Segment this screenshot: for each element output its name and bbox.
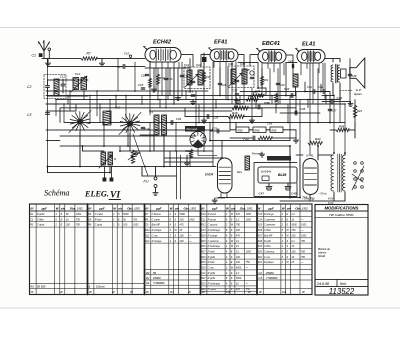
svg-text:5000: 5000 xyxy=(236,267,242,270)
svg-text:25000: 25000 xyxy=(152,276,161,280)
svg-text:W: W xyxy=(282,206,285,210)
svg-text:C34: C34 xyxy=(176,117,182,121)
resistor R19 xyxy=(274,93,277,102)
svg-text:R16: R16 xyxy=(201,245,206,248)
mains plug pins xyxy=(103,178,107,182)
svg-text:750: 750 xyxy=(301,250,306,253)
svg-text:50: 50 xyxy=(153,271,156,275)
svg-text:R.charge: R.charge xyxy=(152,229,162,232)
wire power section xyxy=(289,146,291,198)
capacitor C38 xyxy=(250,71,254,75)
tuning gang section A xyxy=(70,112,90,132)
svg-text:R17: R17 xyxy=(201,250,206,253)
svg-text:1952: 1952 xyxy=(133,224,139,227)
potentiometer P xyxy=(131,150,135,163)
svg-text:25000: 25000 xyxy=(265,271,274,275)
IF transformer T1 xyxy=(184,67,210,89)
svg-text:C.filtre: C.filtre xyxy=(264,245,272,248)
svg-text:C23: C23 xyxy=(188,90,194,94)
svg-text:—: — xyxy=(188,234,192,237)
svg-text:o/e: o/e xyxy=(231,206,236,210)
wire xyxy=(48,79,89,81)
svg-text:C45: C45 xyxy=(288,60,293,64)
svg-text:C.decoup: C.decoup xyxy=(264,250,275,253)
svg-text:C.ajust: C.ajust xyxy=(95,224,103,227)
svg-text:R10: R10 xyxy=(145,229,150,232)
svg-text:C.cadre: C.cadre xyxy=(95,213,104,216)
svg-text:C.osc: C.osc xyxy=(208,267,215,270)
svg-text:R.fuite: R.fuite xyxy=(208,261,216,264)
svg-text:7.500000: 7.500000 xyxy=(266,276,278,280)
svg-text:Schéma: Schéma xyxy=(44,189,69,198)
svg-text:5000: 5000 xyxy=(291,224,297,227)
modifications panel xyxy=(315,205,368,296)
permeability tuner box xyxy=(185,126,205,132)
svg-text:C45: C45 xyxy=(267,122,273,126)
resistor R35 xyxy=(251,94,264,98)
svg-text:S20: S20 xyxy=(201,267,206,270)
svg-text:470: 470 xyxy=(236,288,241,291)
svg-text:C.osc: C.osc xyxy=(264,256,271,259)
svg-text:C46: C46 xyxy=(300,107,306,111)
svg-text:C49: C49 xyxy=(264,101,270,105)
svg-text:C30: C30 xyxy=(228,62,234,66)
resistor R40 box xyxy=(253,127,266,133)
svg-text:24.6.58: 24.6.58 xyxy=(316,282,329,286)
resistor R39 xyxy=(258,136,272,140)
svg-text:W: W xyxy=(259,290,262,294)
svg-text:D+0/S4s: D+0/S4s xyxy=(261,170,272,174)
svg-text:R35: R35 xyxy=(253,90,258,94)
svg-text:S20: S20 xyxy=(258,250,263,253)
svg-text:1952: 1952 xyxy=(77,206,83,210)
svg-text:R.grille: R.grille xyxy=(208,272,216,275)
svg-text:blindé: blindé xyxy=(318,254,326,258)
antenna xyxy=(39,41,50,59)
svg-text:5000: 5000 xyxy=(180,213,186,216)
svg-text:750: 750 xyxy=(301,240,306,243)
wire plate coupling EBC41-EL41 xyxy=(286,55,296,96)
svg-text:5000: 5000 xyxy=(123,213,129,216)
svg-text:R16: R16 xyxy=(258,229,263,232)
svg-text:R.fuite: R.fuite xyxy=(208,250,216,253)
svg-text:R.fuite: R.fuite xyxy=(95,218,103,221)
svg-text:R12: R12 xyxy=(185,149,190,153)
svg-text:750: 750 xyxy=(76,224,81,227)
svg-text:C38: C38 xyxy=(245,68,250,72)
svg-text:2,2: 2,2 xyxy=(290,213,295,216)
resistor R54 xyxy=(336,128,349,132)
svg-text:C14: C14 xyxy=(258,218,263,221)
wire plate coupling ECH42-T1 xyxy=(181,55,210,68)
svg-text:S: S xyxy=(89,285,91,289)
ground xyxy=(212,198,217,203)
svg-text:W: W xyxy=(302,290,305,294)
svg-text:HP. Calibre 785%: HP. Calibre 785% xyxy=(329,213,353,217)
table group dividers xyxy=(87,204,89,295)
tuning gang section B xyxy=(120,114,140,134)
svg-text:S11: S11 xyxy=(145,234,150,237)
wire bottom rails right xyxy=(218,197,300,199)
svg-text:EM34: EM34 xyxy=(205,173,214,177)
svg-text:W: W xyxy=(202,290,205,294)
svg-text:C.cadre: C.cadre xyxy=(208,288,217,291)
capacitor C48 electrolytic xyxy=(285,184,291,191)
svg-text:4,5V: 4,5V xyxy=(328,197,334,201)
svg-text:1952: 1952 xyxy=(134,206,140,210)
wire PU run xyxy=(142,175,177,177)
svg-text:R40: R40 xyxy=(255,128,260,132)
svg-text:470: 470 xyxy=(236,213,241,216)
capacitor C33 xyxy=(217,129,219,133)
svg-text:W: W xyxy=(170,206,173,210)
svg-text:o/e: o/e xyxy=(287,206,292,210)
svg-text:C16: C16 xyxy=(141,74,146,78)
svg-text:7.500000: 7.500000 xyxy=(153,281,165,285)
svg-text:100: 100 xyxy=(236,229,241,232)
wire filter loop xyxy=(254,163,297,197)
junction dots extra xyxy=(189,90,191,92)
coil L2 with core arrow xyxy=(73,78,79,90)
svg-text:—: — xyxy=(188,240,192,243)
svg-text:W: W xyxy=(146,290,149,294)
svg-text:R17: R17 xyxy=(258,234,263,237)
capacitor C26 xyxy=(218,83,222,84)
svg-text:100: 100 xyxy=(180,234,185,237)
svg-text:750: 750 xyxy=(236,224,241,227)
svg-text:C18: C18 xyxy=(138,83,144,87)
svg-text:1952: 1952 xyxy=(190,206,196,210)
resistor R14 xyxy=(202,72,205,82)
capacitor C1 xyxy=(39,53,43,57)
svg-text:C13: C13 xyxy=(258,213,263,216)
wire plate coupling EF41-T2 xyxy=(238,55,258,67)
resistor R11 xyxy=(148,78,151,87)
oscillator coil L3 xyxy=(154,115,159,135)
svg-text:113522: 113522 xyxy=(329,287,355,296)
svg-text:Obs.: Obs. xyxy=(127,206,134,210)
wire bus rail 5 xyxy=(60,107,296,109)
wire bus rail 6b xyxy=(46,129,213,131)
svg-text:W: W xyxy=(112,290,115,294)
wire speaker leads xyxy=(332,59,334,63)
svg-text:Obs.: Obs. xyxy=(70,206,77,210)
svg-text:C11: C11 xyxy=(60,75,65,79)
svg-text:R2: R2 xyxy=(146,271,150,275)
table row lines xyxy=(30,216,313,291)
wire top rail xyxy=(42,58,81,60)
dial lamp wire pair xyxy=(176,151,178,199)
svg-text:EF41: EF41 xyxy=(214,40,227,46)
oscillator coil L4 xyxy=(162,115,167,135)
svg-text:R.bobinage: R.bobinage xyxy=(208,229,221,232)
svg-text:200: 200 xyxy=(235,261,241,264)
svg-text:μμF: μμF xyxy=(41,206,47,210)
svg-text:C22: C22 xyxy=(196,63,202,67)
svg-text:R.plaque: R.plaque xyxy=(264,261,274,264)
svg-text:200: 200 xyxy=(179,240,185,243)
capacitor C37 xyxy=(328,109,332,110)
svg-text:1952: 1952 xyxy=(247,206,253,210)
svg-text:C.filtre: C.filtre xyxy=(264,229,272,232)
svg-text:C33: C33 xyxy=(212,127,217,131)
box around input coils xyxy=(44,75,66,99)
svg-text:o/e: o/e xyxy=(175,206,180,210)
wire rail lower left xyxy=(48,166,217,168)
resistor R23 xyxy=(353,105,357,117)
svg-text:R16: R16 xyxy=(232,111,238,115)
table outer border xyxy=(30,204,313,295)
svg-text:2,2: 2,2 xyxy=(235,218,240,221)
svg-text:C12: C12 xyxy=(75,72,81,76)
wire bus rail 6c xyxy=(60,135,196,137)
svg-text:750: 750 xyxy=(133,218,138,221)
svg-text:1952: 1952 xyxy=(301,234,307,237)
svg-text:R18: R18 xyxy=(201,256,206,259)
svg-text:C48: C48 xyxy=(291,192,297,196)
svg-text:C.liaison: C.liaison xyxy=(152,213,162,216)
svg-text:S15: S15 xyxy=(258,224,263,227)
svg-text:R.charge: R.charge xyxy=(208,234,218,237)
resistor R24 xyxy=(246,98,258,102)
svg-text:R15: R15 xyxy=(201,240,206,243)
svg-text:78‰ mμ: 78‰ mμ xyxy=(302,197,315,201)
table header row line xyxy=(30,210,313,212)
extra grid dots xyxy=(67,95,69,97)
wire gang link xyxy=(79,132,81,167)
svg-text:EBC41: EBC41 xyxy=(262,41,280,47)
svg-text:W: W xyxy=(130,290,133,294)
wire under ECH42 xyxy=(154,59,190,100)
svg-text:R7: R7 xyxy=(87,52,91,56)
table sub-column lines xyxy=(36,204,300,295)
svg-text:o/e: o/e xyxy=(61,206,66,210)
svg-text:C13: C13 xyxy=(201,229,206,232)
capacitor C14 xyxy=(141,127,145,128)
svg-text:o/e: o/e xyxy=(118,206,123,210)
svg-text:100: 100 xyxy=(236,256,241,259)
tube EF41 pins xyxy=(214,62,236,108)
svg-text:1952: 1952 xyxy=(246,250,252,253)
resistor R21 xyxy=(260,76,263,85)
svg-text:C49: C49 xyxy=(337,96,343,100)
svg-text:R.ecran: R.ecran xyxy=(208,213,217,216)
svg-text:R14: R14 xyxy=(206,75,211,79)
tube EBC41 pins xyxy=(262,63,284,104)
svg-text:Obs.: Obs. xyxy=(295,206,302,210)
svg-text:C37: C37 xyxy=(332,109,337,113)
svg-text:1952: 1952 xyxy=(246,213,252,216)
wire bus rail 2 xyxy=(46,95,296,97)
svg-text:Obs.: Obs. xyxy=(240,206,247,210)
svg-text:R.charge: R.charge xyxy=(152,240,162,243)
svg-text:R.bobinage: R.bobinage xyxy=(208,283,221,286)
svg-text:W: W xyxy=(89,290,92,294)
svg-text:C19: C19 xyxy=(184,75,189,79)
wire bus rail 7 xyxy=(120,150,213,152)
svg-text:ELEG.: ELEG. xyxy=(84,190,109,199)
svg-text:S.Eumi: S.Eumi xyxy=(96,285,105,289)
svg-text:R23: R23 xyxy=(357,109,362,113)
resistor R17 xyxy=(232,106,248,110)
svg-text:C39: C39 xyxy=(352,74,357,78)
svg-text:R21: R21 xyxy=(264,78,269,82)
driver coil xyxy=(293,74,298,87)
mains switch S xyxy=(101,152,106,165)
svg-text:C.osc: C.osc xyxy=(152,234,159,237)
svg-text:C.antenne: C.antenne xyxy=(208,240,220,243)
output transformer xyxy=(331,65,333,82)
svg-text:H.P.: H.P. xyxy=(356,88,362,92)
svg-text:C2: C2 xyxy=(259,271,263,275)
svg-text:μμF: μμF xyxy=(98,206,104,210)
svg-text:Cd: Cd xyxy=(282,290,286,294)
voltage selector xyxy=(354,162,357,165)
svg-text:W: W xyxy=(248,290,251,294)
capacitor C40 xyxy=(276,83,280,84)
svg-text:470: 470 xyxy=(236,234,241,237)
svg-text:vibreur: vibreur xyxy=(318,251,326,255)
svg-text:C2: C2 xyxy=(27,85,31,89)
svg-text:Permeab.: Permeab. xyxy=(187,127,199,131)
svg-text:C41: C41 xyxy=(307,85,312,89)
svg-text:BL26: BL26 xyxy=(278,173,286,177)
svg-text:R34: R34 xyxy=(315,137,321,141)
svg-text:Bobine du: Bobine du xyxy=(318,247,331,251)
svg-text:C.antenne: C.antenne xyxy=(264,218,276,221)
svg-text:μμF: μμF xyxy=(155,206,161,210)
svg-text:UY41: UY41 xyxy=(306,154,314,158)
magic eye face xyxy=(190,132,206,148)
extra grid verticals xyxy=(68,91,326,167)
svg-text:dynam.: dynam. xyxy=(354,92,363,96)
svg-text:P.U: P.U xyxy=(144,180,150,184)
svg-text:EL41: EL41 xyxy=(302,42,315,48)
svg-text:750: 750 xyxy=(301,256,306,259)
wire bus rail 3 xyxy=(56,99,340,101)
resistor R7 xyxy=(81,57,97,61)
svg-text:R.ecran: R.ecran xyxy=(208,218,217,221)
magic eye shadow sector xyxy=(193,140,204,148)
svg-text:W: W xyxy=(60,290,63,294)
svg-text:R1: R1 xyxy=(31,285,35,289)
svg-text:C11: C11 xyxy=(201,218,206,221)
svg-text:−50 m: −50 m xyxy=(318,192,327,196)
svg-text:Bob.MF: Bob.MF xyxy=(152,224,161,227)
svg-text:750: 750 xyxy=(246,261,251,264)
svg-text:R30: R30 xyxy=(238,128,243,132)
ground near eye xyxy=(184,161,189,166)
svg-text:S: S xyxy=(114,157,116,161)
svg-text:750: 750 xyxy=(291,229,296,232)
svg-text:1952: 1952 xyxy=(246,218,252,221)
ground symbols scattered xyxy=(151,87,156,92)
svg-text:R12: R12 xyxy=(201,224,206,227)
wire xyxy=(210,140,290,142)
svg-text:1952: 1952 xyxy=(301,224,307,227)
svg-text:C28: C28 xyxy=(213,116,219,120)
ground xyxy=(348,102,353,107)
svg-text:R.grille: R.grille xyxy=(208,256,216,259)
svg-text:R21: R21 xyxy=(258,256,263,259)
svg-text:W: W xyxy=(56,206,59,210)
filter block BL26 xyxy=(258,167,297,183)
svg-text:C26: C26 xyxy=(222,83,227,87)
svg-text:S2: S2 xyxy=(146,281,150,285)
wire xyxy=(97,58,145,60)
svg-text:C32: C32 xyxy=(232,89,238,93)
svg-text:R54: R54 xyxy=(339,125,345,129)
svg-text:μμF: μμF xyxy=(211,206,217,210)
svg-text:C21: C21 xyxy=(201,272,206,275)
svg-text:C10: C10 xyxy=(124,52,130,56)
IF transformer T2 xyxy=(228,66,254,88)
wire power runs xyxy=(60,145,290,147)
grid cap marks on tubes xyxy=(144,46,147,49)
tube EL41 pins xyxy=(301,63,323,104)
svg-text:Permeab.: Permeab. xyxy=(252,153,263,156)
svg-text:C1: C1 xyxy=(32,54,36,58)
wire xyxy=(230,129,236,131)
svg-text:Cd: Cd xyxy=(226,290,230,294)
capacitor C47 electrolytic xyxy=(266,184,272,191)
svg-text:R.grille: R.grille xyxy=(208,277,216,280)
choke coil xyxy=(245,156,250,170)
wire verticals right section xyxy=(48,59,356,167)
svg-text:R.bobinage: R.bobinage xyxy=(208,245,221,248)
ground under PU xyxy=(153,191,158,196)
svg-text:C47: C47 xyxy=(259,192,265,196)
mains dropper box xyxy=(267,156,291,161)
svg-text:Obs.: Obs. xyxy=(184,206,191,210)
wire bus rail 4 xyxy=(46,103,345,105)
capacitor C39 xyxy=(348,74,352,75)
svg-text:ECH42: ECH42 xyxy=(153,40,172,46)
svg-text:R.charge: R.charge xyxy=(264,213,274,216)
wire horizontals extra xyxy=(46,68,332,162)
svg-text:μμF: μμF xyxy=(268,206,274,210)
ground xyxy=(45,61,50,66)
svg-text:W: W xyxy=(188,290,191,294)
svg-text:S14: S14 xyxy=(201,234,206,237)
svg-text:MODIFICATIONS: MODIFICATIONS xyxy=(324,206,358,211)
wire bus rail 6 xyxy=(64,122,345,124)
wire EM34 leads xyxy=(198,148,227,199)
dial cord link xyxy=(133,134,148,176)
resistor R10 xyxy=(156,74,159,84)
svg-text:1952: 1952 xyxy=(189,218,195,221)
svg-text:W: W xyxy=(113,206,116,210)
svg-text:C10: C10 xyxy=(201,213,206,216)
svg-text:C3: C3 xyxy=(259,276,263,280)
svg-text:200: 200 xyxy=(179,218,185,221)
svg-text:W: W xyxy=(170,290,173,294)
svg-text:VI: VI xyxy=(110,191,120,201)
capacitor C10 xyxy=(129,55,131,57)
antenna coil secondary xyxy=(103,111,111,125)
power transformer xyxy=(331,155,334,191)
svg-text:W: W xyxy=(226,206,229,210)
wire extra rail top right xyxy=(238,62,258,64)
svg-text:200: 200 xyxy=(65,224,71,227)
capacitor C19 xyxy=(180,75,184,76)
svg-text:200: 200 xyxy=(290,234,296,237)
capacitor C16 xyxy=(145,74,149,75)
svg-text:R.cath: R.cath xyxy=(264,240,272,243)
svg-text:C17: C17 xyxy=(117,65,123,69)
svg-text:1952: 1952 xyxy=(302,206,308,210)
svg-text:C.ajust: C.ajust xyxy=(37,224,45,227)
